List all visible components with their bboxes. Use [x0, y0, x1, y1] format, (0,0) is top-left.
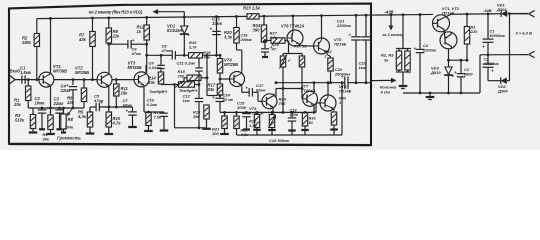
wire vertical x207	[206, 55, 208, 95]
potentiometer R26 750	[271, 112, 273, 114]
ground bleeder	[399, 85, 408, 87]
arrow transformer mid	[529, 51, 535, 54]
wire VT8 collector to rail	[321, 16, 323, 38]
wire VT8 emitter	[327, 54, 331, 56]
wire driver bias	[264, 40, 271, 42]
resistor R25 1.8k	[256, 112, 258, 114]
capacitor C4 2200uF psu	[419, 15, 421, 49]
capacitor C10 0.1uF	[144, 111, 164, 113]
wire VT2 collector	[108, 44, 110, 72]
capacitor C4 22uF	[72, 80, 74, 85]
capacitor C19 1000	[291, 112, 293, 117]
resistor R14 33k	[158, 72, 163, 84]
capacitor C1 5uF	[21, 75, 23, 84]
capacitor C8 0.01uF	[160, 55, 162, 64]
potentiometer bass Tembr NCh	[179, 82, 195, 87]
capacitor C3 6800	[460, 60, 462, 73]
resistor R6 10k	[83, 80, 85, 88]
capacitor C16 200uF	[264, 41, 266, 49]
diode VD2 D304	[488, 80, 501, 82]
wire bias top row	[283, 53, 302, 55]
transistor VT8 P214B	[314, 38, 330, 54]
speaker output arrow	[371, 79, 392, 81]
capacitor C17 68uF	[248, 88, 250, 97]
wire A coupling line	[109, 43, 128, 45]
resistor R3 510k	[32, 108, 34, 115]
transistor VT2 P214B psu	[440, 32, 457, 49]
wire VT7 base	[301, 67, 303, 99]
resistor R32 1	[328, 58, 333, 71]
wire input signal line	[15, 79, 39, 81]
resistor R20 3.3k	[236, 16, 238, 27]
wire ground bus up right	[479, 55, 481, 93]
wire VT9 emitter	[333, 110, 335, 113]
resistor R1 220 psu	[466, 14, 468, 26]
resistor R12 1k	[146, 17, 148, 25]
wire VT1 collector	[50, 18, 52, 72]
resistor R7 43k	[92, 18, 94, 31]
resistor R16 2.7k in wire B	[189, 53, 203, 58]
resistor R9 22k	[108, 18, 110, 28]
wire VT9 base	[316, 102, 321, 104]
transistor VT5 GT402B	[262, 94, 277, 109]
wire emitter node row	[90, 106, 96, 108]
wire VT9 collector	[327, 83, 329, 95]
wire VT5 emitter	[272, 109, 274, 112]
capacitor C14 22uF	[219, 96, 221, 98]
wire VT2 emitter	[108, 87, 110, 107]
wire to channel 2 down arrow	[390, 15, 392, 26]
wire bias bottom row	[276, 88, 302, 90]
transistor VT3 MP26B	[134, 72, 149, 87]
wire VT7 collector	[313, 83, 315, 92]
resistor R5 4.3k	[89, 107, 91, 112]
transistor VT2 MP25B	[97, 72, 112, 87]
wire center tap line	[480, 54, 528, 56]
wire VT3 emitter	[143, 87, 145, 112]
capacitor C2 40000uF	[487, 55, 489, 64]
resistor R30 51	[301, 54, 303, 57]
capacitor C11 0.1uF	[198, 55, 200, 67]
resistor R18 390	[204, 105, 209, 119]
capacitor C7 68uF	[116, 106, 132, 108]
resistor R19 100k	[219, 55, 221, 58]
wire zener node	[449, 59, 468, 61]
wire tone return bus	[174, 85, 176, 128]
resistor R13 7.5k	[148, 111, 150, 114]
resistor R10 4.7k	[108, 107, 110, 112]
capacitor C9 47uF series	[171, 51, 173, 60]
capacitor C21 2200uF	[355, 15, 357, 36]
wire bottom bias bus	[220, 111, 316, 113]
wire lower node bus	[28, 107, 84, 109]
transistor VT1 MP39B	[39, 72, 54, 87]
resistor R17 33k	[217, 84, 222, 95]
wire VT3 collector	[145, 65, 147, 72]
resistor R33 1	[331, 112, 336, 125]
capacitor C13 10uF	[216, 17, 218, 56]
wire rail to transformer	[508, 13, 529, 15]
ground psu	[429, 93, 431, 97]
wire output line	[276, 82, 345, 84]
wire VT4 emitter	[241, 87, 243, 93]
diode VD1 D304	[501, 10, 507, 17]
capacitor C1 40000uF	[487, 14, 489, 39]
wire pot to C11 node	[195, 84, 200, 86]
zener diode VD3 D919	[445, 67, 452, 75]
arrow transformer top	[529, 11, 535, 14]
wire VT6 collector to rail	[292, 16, 294, 30]
thermistor R28 47	[282, 54, 284, 57]
capacitor C12 1uF	[198, 85, 200, 98]
resistor R22 4.3k	[236, 112, 238, 116]
transistor VT9 P214B	[320, 95, 336, 111]
capacitor C20 20000uF output	[344, 76, 346, 89]
wire VD2 branch vertical	[509, 14, 511, 81]
capacitor C3 22uF	[59, 108, 61, 109]
wire to channel 2 with arrow	[158, 11, 185, 13]
capacitor C5 47uF series	[95, 103, 97, 112]
resistor R23 1.5k in rail	[247, 14, 259, 19]
capacitor C22 1uF	[365, 15, 367, 36]
resistor R27 4.7k	[271, 38, 285, 43]
transistor VT1 P214B psu	[433, 15, 450, 32]
resistor R11 15k	[115, 80, 117, 84]
wire to bass pot	[161, 84, 179, 86]
capacitor C6 47uF	[127, 40, 129, 49]
wire VT5 collector riser	[275, 89, 277, 98]
resistor R15 150	[187, 75, 201, 80]
zener diode VD1 KS515A	[183, 17, 185, 26]
wire output ground return bus	[252, 134, 342, 136]
resistor R31 51	[304, 111, 306, 114]
wire VT2 psu collector down	[448, 49, 450, 60]
resistor R21 100	[224, 112, 226, 116]
transistor VT4 MP25B	[230, 72, 245, 87]
transistor VT6 GT402A	[287, 30, 303, 46]
node input junction	[27, 78, 30, 81]
transistor VT7 GT404A	[303, 91, 318, 106]
capacitor C15 1000	[246, 111, 248, 114]
wire VT7 emitter	[313, 106, 315, 112]
resistor R1 20k	[27, 80, 29, 86]
wire bias feed	[288, 41, 290, 54]
wire VT6 emitter to VT8 base	[301, 44, 307, 47]
wire VT4 collector	[241, 50, 243, 71]
wire top supply rail -43V	[37, 16, 247, 18]
border frame of amplifier block	[9, 4, 371, 145]
potentiometer R8 100k volume	[63, 108, 65, 114]
resistor R2 180k	[36, 19, 38, 34]
wire B tone chain	[147, 54, 172, 56]
resistor R4 30k	[50, 108, 52, 115]
resistor R24 390	[263, 16, 265, 25]
wire psu ground bus	[403, 92, 480, 94]
wire VT1 emitter	[50, 87, 52, 108]
capacitor C2 10uF	[41, 108, 43, 109]
resistors R2 R3 3k bleeder	[402, 15, 404, 49]
